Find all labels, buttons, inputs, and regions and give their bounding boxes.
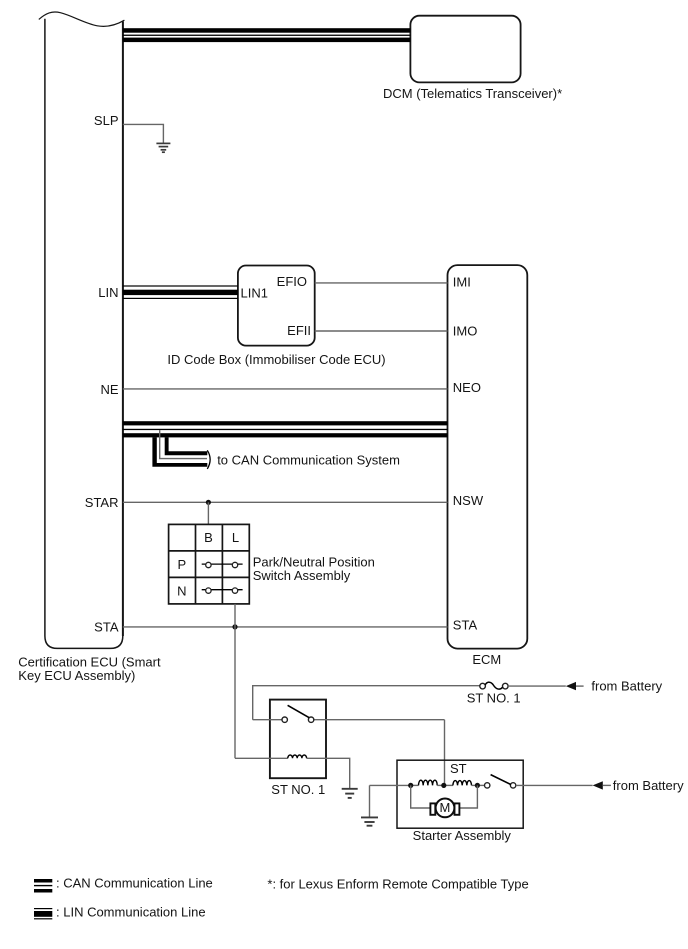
svg-text:LIN: LIN (98, 285, 118, 300)
svg-text:IMO: IMO (453, 324, 478, 339)
svg-text:ID Code Box (Immobiliser Code: ID Code Box (Immobiliser Code ECU) (167, 352, 385, 367)
svg-text:N: N (177, 584, 186, 599)
svg-text:IMI: IMI (453, 275, 471, 290)
svg-text:from Battery: from Battery (613, 778, 684, 793)
svg-text:STAR: STAR (85, 495, 119, 510)
svg-text:: CAN Communication Line: : CAN Communication Line (56, 876, 213, 891)
svg-text:Starter Assembly: Starter Assembly (413, 828, 512, 843)
svg-text:B: B (204, 530, 213, 545)
svg-text:ST NO. 1: ST NO. 1 (271, 782, 325, 797)
svg-text:STA: STA (453, 618, 478, 633)
svg-text:NE: NE (100, 382, 118, 397)
svg-text:P: P (177, 557, 186, 572)
svg-text:ST NO. 1: ST NO. 1 (467, 691, 521, 706)
svg-text:Switch Assembly: Switch Assembly (253, 568, 351, 583)
svg-text:M: M (439, 800, 450, 815)
svg-text:Key ECU Assembly): Key ECU Assembly) (18, 668, 135, 683)
svg-text:EFIO: EFIO (277, 274, 307, 289)
svg-text:ST: ST (450, 761, 467, 776)
svg-text:L: L (232, 530, 239, 545)
svg-text:LIN1: LIN1 (241, 285, 268, 300)
svg-text:STA: STA (94, 620, 119, 635)
svg-text:to CAN Communication System: to CAN Communication System (217, 453, 400, 468)
svg-text:ECM: ECM (472, 652, 501, 667)
svg-text:NEO: NEO (453, 380, 481, 395)
svg-text:from Battery: from Battery (591, 679, 662, 694)
svg-text:: LIN Communication Line: : LIN Communication Line (56, 905, 206, 920)
svg-text:NSW: NSW (453, 493, 484, 508)
svg-text:SLP: SLP (94, 113, 119, 128)
svg-text:*: for Lexus Enform Remote Com: *: for Lexus Enform Remote Compatible Ty… (267, 877, 528, 892)
svg-text:EFII: EFII (287, 323, 311, 338)
svg-text:DCM (Telematics Transceiver)*: DCM (Telematics Transceiver)* (383, 86, 562, 101)
